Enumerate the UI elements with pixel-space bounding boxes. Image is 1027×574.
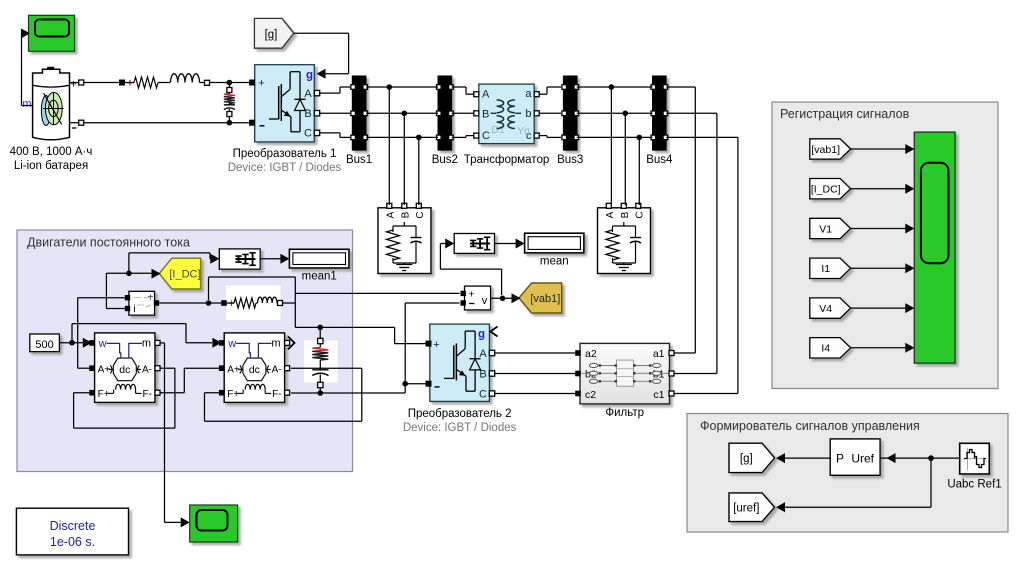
svg-text:v: v <box>482 295 488 307</box>
svg-text:V1: V1 <box>819 223 832 235</box>
svg-text:A: A <box>304 88 312 100</box>
svg-text:g: g <box>306 70 313 82</box>
svg-text:V4: V4 <box>819 303 832 315</box>
svg-text:Bus4: Bus4 <box>646 154 673 166</box>
svg-text:Device: IGBT / Diodes: Device: IGBT / Diodes <box>403 422 517 434</box>
svg-text:[g]: [g] <box>740 453 753 465</box>
svg-text:Формирователь сигналов управле: Формирователь сигналов управления <box>700 419 920 433</box>
svg-text:Фильтр: Фильтр <box>605 407 644 419</box>
svg-text:mean: mean <box>540 256 569 268</box>
svg-text:Bus1: Bus1 <box>346 154 372 166</box>
svg-text:c2: c2 <box>585 389 596 401</box>
svg-text:m: m <box>22 98 31 110</box>
svg-text:C: C <box>634 211 645 218</box>
svg-text:m: m <box>142 337 151 349</box>
svg-text:+: + <box>258 78 264 90</box>
svg-text:[I_DC]: [I_DC] <box>811 184 841 196</box>
svg-text:I1: I1 <box>821 263 830 275</box>
svg-text:b: b <box>525 108 531 120</box>
svg-text:dc: dc <box>119 364 130 376</box>
svg-text:a: a <box>525 88 532 100</box>
svg-text:F-: F- <box>143 389 152 400</box>
svg-text:mean1: mean1 <box>302 271 337 283</box>
svg-text:[g]: [g] <box>265 29 278 41</box>
svg-text:A+: A+ <box>98 364 111 375</box>
svg-text:[vab1]: [vab1] <box>811 144 840 156</box>
svg-text:A-: A- <box>142 364 152 375</box>
svg-text:+: + <box>468 289 474 301</box>
svg-text:+: + <box>127 78 133 90</box>
svg-text:+: + <box>228 298 234 310</box>
svg-text:B: B <box>482 109 489 121</box>
svg-text:400 В, 1000 А·ч: 400 В, 1000 А·ч <box>10 146 93 158</box>
svg-text:Uref: Uref <box>851 452 874 466</box>
svg-text:Device: IGBT / Diodes: Device: IGBT / Diodes <box>228 162 342 174</box>
svg-text:w: w <box>227 338 236 350</box>
svg-text:B: B <box>400 211 411 218</box>
svg-text:C: C <box>304 128 312 140</box>
svg-text:Uabc Ref1: Uabc Ref1 <box>947 479 1001 491</box>
svg-text:dc: dc <box>249 364 260 376</box>
svg-text:+: + <box>70 79 76 91</box>
svg-text:w: w <box>98 338 107 350</box>
svg-text:Yg: Yg <box>517 125 530 137</box>
svg-text:C: C <box>415 211 426 218</box>
svg-text:[I_DC]: [I_DC] <box>169 269 200 281</box>
svg-text:i: i <box>133 303 135 315</box>
svg-text:+: + <box>433 339 439 351</box>
svg-text:A: A <box>385 211 396 218</box>
svg-text:C: C <box>479 389 487 401</box>
svg-text:Преобразователь 1: Преобразователь 1 <box>233 148 337 160</box>
svg-text:Двигатели постоянного тока: Двигатели постоянного тока <box>27 236 190 250</box>
svg-text:A-: A- <box>272 364 282 375</box>
svg-text:Bus2: Bus2 <box>432 154 458 166</box>
svg-text:F-: F- <box>272 389 281 400</box>
svg-text:F+: F+ <box>98 389 110 400</box>
svg-text:A+: A+ <box>227 364 240 375</box>
svg-text:Li-ion батарея: Li-ion батарея <box>14 160 88 172</box>
svg-text:Трансформатор: Трансформатор <box>464 154 550 166</box>
svg-text:F+: F+ <box>227 389 239 400</box>
svg-text:C: C <box>482 130 490 142</box>
svg-text:I4: I4 <box>821 343 830 355</box>
svg-text:B: B <box>620 211 631 218</box>
svg-text:g: g <box>478 329 485 341</box>
svg-text:Регистрация сигналов: Регистрация сигналов <box>780 107 910 121</box>
svg-text:Bus3: Bus3 <box>557 154 583 166</box>
svg-text:[vab1]: [vab1] <box>530 293 560 305</box>
svg-text:a1: a1 <box>653 348 665 360</box>
svg-text:P: P <box>836 452 844 466</box>
svg-text:c1: c1 <box>653 389 664 401</box>
svg-text:1e-06 s.: 1e-06 s. <box>50 535 95 549</box>
svg-text:500: 500 <box>35 339 53 351</box>
svg-text:[uref]: [uref] <box>733 502 759 514</box>
svg-text:A: A <box>605 211 616 218</box>
svg-text:A: A <box>482 89 490 101</box>
svg-text:Преобразователь 2: Преобразователь 2 <box>408 408 512 420</box>
svg-text:m: m <box>271 337 280 349</box>
svg-text:Discrete: Discrete <box>50 519 96 533</box>
svg-text:a2: a2 <box>585 348 597 360</box>
